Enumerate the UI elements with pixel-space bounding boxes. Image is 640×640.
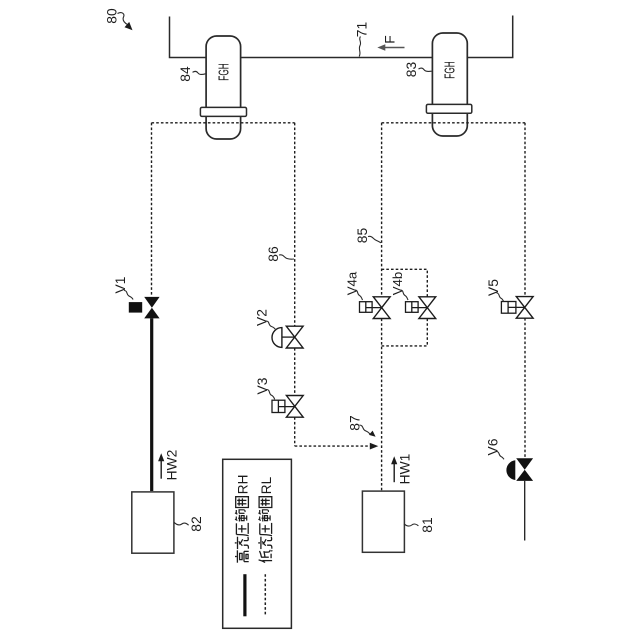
valve V4b bowtie <box>419 297 436 319</box>
wire circuit 85 right vertical to valve V5 (dashed) <box>524 123 526 297</box>
legend box <box>223 459 292 628</box>
svg-text:V2: V2 <box>255 309 270 326</box>
leader squiggle for label 86 <box>279 255 294 259</box>
leader squiggle for label 83 <box>419 68 432 71</box>
wire bypass loop top (dashed) <box>382 269 428 297</box>
svg-text:86: 86 <box>266 246 281 262</box>
legend solid line sample (RH) <box>243 574 246 616</box>
wire circuit 85 top horizontal (dashed) <box>382 122 525 124</box>
svg-text:HW1: HW1 <box>398 454 413 485</box>
leader squiggle for label 85 <box>368 236 381 242</box>
wire segment valve V3 down to corner (dashed) <box>294 417 296 446</box>
valve V3 actuator divider and stem <box>278 400 294 412</box>
leader arrow for label 87 <box>360 425 371 434</box>
valve V4b actuator divider and stem <box>412 302 428 313</box>
valve V2 bowtie <box>286 326 303 348</box>
legend text RH: kanji taka-juu-atsu-han-i + RH <box>235 475 251 563</box>
flow arrow F pointing left <box>383 47 405 49</box>
svg-text:RL: RL <box>259 476 274 494</box>
valve V6 actuator dome (filled) <box>506 460 515 480</box>
pipe thick solid line HW2 from valve V1 to box 82 <box>150 318 153 491</box>
leader squiggle for label 82 <box>174 522 189 525</box>
leader squiggle for label 81 <box>404 524 418 526</box>
tank 83 vessel <box>432 33 467 136</box>
svg-text:HW2: HW2 <box>165 450 180 481</box>
leader arrow for label 80 <box>118 13 129 25</box>
tank 84 flange <box>200 107 246 116</box>
leader squiggle for label V2 <box>266 321 275 329</box>
valve V5 actuator square <box>501 302 516 314</box>
wire bypass loop bottom (dashed) <box>382 319 428 346</box>
arrow HW2 <box>160 459 162 479</box>
valve V4a bowtie <box>373 297 390 319</box>
svg-text:87: 87 <box>348 415 363 430</box>
tank 84 vessel <box>206 36 241 139</box>
valve V6 (solid bowtie, filled) <box>516 458 533 469</box>
svg-text:V5: V5 <box>486 279 501 296</box>
legend text RL: kanji tei-juu-atsu-han-i + RL <box>258 476 274 562</box>
valve V4a actuator divider and stem <box>366 302 382 313</box>
valve V1 (solid bowtie, filled) <box>144 297 159 308</box>
wire circuit 86 left vertical to valve V1 (dashed) <box>151 123 153 297</box>
pipe thin line below valve V6 <box>524 481 526 541</box>
svg-text:FGH: FGH <box>441 61 458 78</box>
svg-text:71: 71 <box>355 22 370 37</box>
svg-text:83: 83 <box>404 62 419 78</box>
svg-text:80: 80 <box>105 8 120 24</box>
wire circuit 86 right vertical to valve V2 (dashed) <box>294 123 296 326</box>
box 81 <box>362 491 404 552</box>
legend dashed line sample (RL) <box>264 574 266 616</box>
valve V2 actuator stem <box>282 336 295 338</box>
wire circuit 85 left vertical to valve V4a (dashed) <box>381 123 383 297</box>
leader squiggle for label 71 <box>359 37 360 57</box>
leader squiggle for label V4b <box>401 290 409 300</box>
valve V4b actuator square <box>406 302 419 313</box>
leader squiggle for label V1 <box>124 291 133 300</box>
svg-text:FGH: FGH <box>215 63 232 80</box>
valve V3 actuator square <box>272 400 285 412</box>
svg-text:82: 82 <box>189 516 204 531</box>
leader squiggle for label V6 <box>497 452 505 460</box>
wire segment valve V2 to valve V3 (dashed) <box>294 348 296 396</box>
svg-text:F: F <box>383 35 398 43</box>
wire segment valve V4a down to box 81 (dashed) <box>381 319 383 492</box>
wire line 71 main header pipe <box>170 16 513 58</box>
valve V3 bowtie <box>286 396 303 418</box>
svg-text:81: 81 <box>420 517 435 532</box>
valve V5 bowtie <box>516 297 533 319</box>
valve V1 actuator square (filled) <box>129 302 142 313</box>
leader squiggle for label V3 <box>267 390 275 400</box>
valve V5 actuator divider and stem <box>508 302 525 314</box>
leader squiggle for label V5 <box>497 293 504 302</box>
leader squiggle for label 84 <box>193 71 206 74</box>
arrow HW1 <box>393 462 395 482</box>
svg-text:84: 84 <box>178 66 193 82</box>
arrowhead at node 87 junction <box>370 443 379 450</box>
wire segment valve V5 to valve V6 (dashed) <box>524 318 526 458</box>
svg-text:85: 85 <box>355 228 370 244</box>
box 82 <box>132 492 174 553</box>
valve V2 diaphragm actuator (dome) <box>272 328 282 348</box>
svg-text:V3: V3 <box>255 377 270 394</box>
wire node 87 horizontal run with arrow (dashed) <box>295 445 371 447</box>
valve V4a actuator square <box>360 302 373 313</box>
leader squiggle for label V4a <box>355 290 363 300</box>
wire circuit 86 top horizontal (dashed) <box>152 122 295 124</box>
tank 83 flange <box>426 104 471 113</box>
svg-text:RH: RH <box>236 475 251 495</box>
